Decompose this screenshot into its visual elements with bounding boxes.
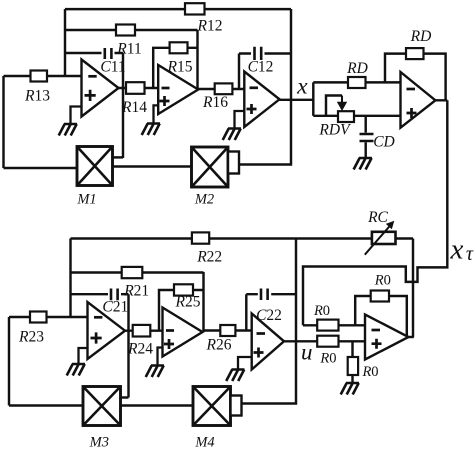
- svg-text:R0: R0: [361, 364, 378, 380]
- svg-text:xτ: xτ: [450, 234, 474, 266]
- svg-text:C11: C11: [100, 59, 125, 76]
- svg-text:R24: R24: [127, 341, 153, 358]
- svg-text:CD: CD: [373, 134, 395, 151]
- svg-text:R21: R21: [123, 283, 149, 300]
- svg-text:M4: M4: [194, 435, 214, 451]
- svg-text:R23: R23: [18, 329, 44, 346]
- svg-text:M2: M2: [194, 192, 214, 208]
- svg-text:R12: R12: [197, 18, 223, 35]
- svg-text:u: u: [301, 340, 313, 365]
- svg-text:R0: R0: [374, 273, 391, 289]
- svg-text:R0: R0: [313, 303, 330, 319]
- svg-text:R26: R26: [206, 337, 232, 354]
- svg-text:RDV: RDV: [318, 122, 351, 139]
- svg-text:x: x: [296, 74, 308, 100]
- svg-text:R14: R14: [121, 99, 147, 116]
- svg-text:C12: C12: [248, 59, 274, 76]
- svg-text:M1: M1: [76, 192, 96, 208]
- svg-text:M3: M3: [89, 435, 109, 451]
- svg-text:C21: C21: [102, 299, 128, 316]
- svg-text:RC: RC: [367, 209, 388, 226]
- svg-text:RD: RD: [346, 60, 368, 77]
- svg-text:R13: R13: [24, 88, 50, 105]
- svg-text:RD: RD: [410, 28, 432, 45]
- svg-text:C22: C22: [256, 307, 282, 324]
- svg-text:R25: R25: [175, 294, 201, 311]
- svg-text:R16: R16: [202, 94, 228, 111]
- svg-text:R15: R15: [167, 59, 193, 76]
- svg-text:R0: R0: [319, 351, 336, 367]
- svg-text:R22: R22: [196, 249, 222, 266]
- svg-text:R11: R11: [116, 41, 141, 58]
